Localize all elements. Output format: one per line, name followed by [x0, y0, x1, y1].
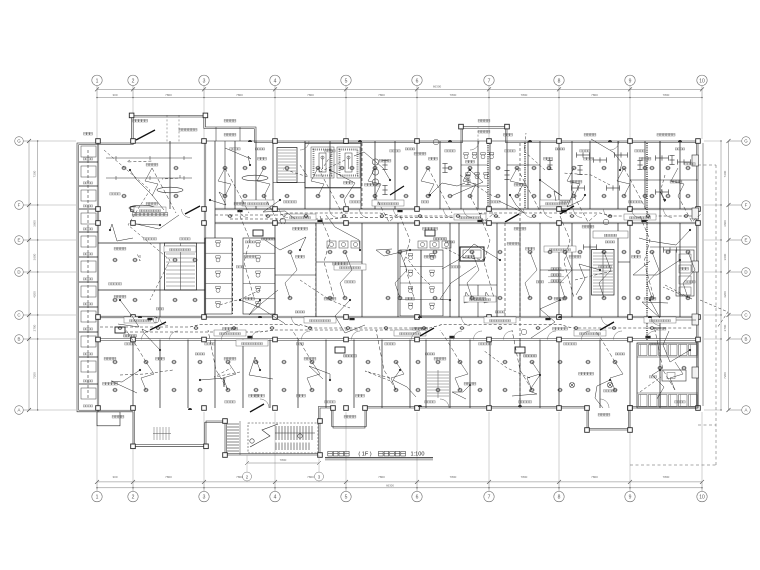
- svg-text:7800: 7800: [591, 475, 598, 479]
- top axis bubble 2: [128, 75, 138, 139]
- svg-text:7: 7: [488, 78, 491, 84]
- bold riser arrows: [136, 130, 614, 412]
- bottom axis bubble 4: [270, 412, 280, 502]
- svg-text:8: 8: [558, 78, 561, 84]
- svg-text:C: C: [744, 313, 747, 318]
- corridor label boxes: [124, 200, 676, 346]
- toilet cell strip A: [205, 238, 232, 314]
- svg-text:5: 5: [345, 78, 348, 84]
- right axis bubble C: [704, 311, 750, 320]
- operating table 2: [337, 147, 360, 178]
- svg-text:4200: 4200: [723, 291, 727, 298]
- horizontal fluorescent bars right wing: [572, 152, 691, 322]
- branch wiring drops: [126, 168, 702, 390]
- top axis bubble 3: [199, 75, 209, 139]
- svg-text:10: 10: [699, 78, 705, 84]
- bottom axis bubble 5: [341, 412, 351, 502]
- stair S6 bottom-right small: [427, 370, 449, 398]
- svg-text:2: 2: [132, 495, 135, 501]
- top axis bubble 4: [270, 75, 280, 139]
- left axis bubble E: [15, 236, 76, 245]
- svg-text:9: 9: [629, 78, 632, 84]
- svg-text:4200: 4200: [33, 291, 37, 298]
- right axis bubble G: [704, 137, 750, 146]
- left axis bubble F: [15, 201, 76, 210]
- middle band right partitions: [540, 223, 680, 317]
- right axis bubble B: [704, 335, 750, 344]
- top axis bubble 9: [625, 75, 635, 139]
- svg-text:1: 1: [96, 78, 99, 84]
- svg-text:D: D: [744, 270, 747, 275]
- top axis bubble 5: [341, 75, 351, 139]
- right wall pilasters: [692, 155, 699, 378]
- door arcs top wall: [260, 141, 619, 408]
- sterilizer circles: [372, 159, 378, 185]
- upper corridor walls: [215, 208, 698, 224]
- svg-text:7800: 7800: [236, 475, 243, 479]
- left shaft band inner wall: [96, 143, 98, 412]
- right wing cabinet: [676, 250, 694, 296]
- shaft hatched walls: [488, 143, 525, 209]
- title text: [325, 451, 433, 460]
- svg-text:7800: 7800: [307, 93, 314, 97]
- lower corridor wiring: [100, 325, 692, 333]
- hatched wall right wing: [646, 143, 648, 340]
- svg-text:B: B: [745, 337, 748, 342]
- svg-text:2: 2: [132, 78, 135, 84]
- svg-text:6: 6: [416, 495, 419, 501]
- svg-text:7800: 7800: [521, 93, 528, 97]
- svg-text:4: 4: [274, 78, 277, 84]
- bottom-right toilet block: [637, 343, 698, 408]
- stair S4 bottom-left small: [153, 427, 171, 440]
- svg-text:3600: 3600: [33, 220, 37, 227]
- toilet cell strip C: [400, 250, 421, 316]
- top axis bubble 1: [92, 75, 102, 139]
- corridor lamps: [118, 215, 689, 330]
- bottom axis bubble 10: [697, 412, 707, 502]
- svg-text:G: G: [17, 139, 21, 144]
- washroom pair: [459, 285, 497, 317]
- svg-text:C: C: [17, 313, 20, 318]
- svg-text:10: 10: [699, 495, 705, 501]
- middle band left rooms: [98, 243, 205, 317]
- svg-text:A: A: [18, 408, 21, 413]
- right boundary dashed line: [630, 165, 716, 465]
- AHU room wall: [98, 143, 206, 318]
- room name labels: [84, 119, 689, 418]
- operating room enclosure: [305, 144, 361, 188]
- svg-text:3: 3: [203, 495, 206, 501]
- svg-text:3600: 3600: [33, 253, 37, 260]
- svg-text:3600: 3600: [723, 253, 727, 260]
- svg-text:6: 6: [416, 78, 419, 84]
- circled reference tags: [153, 139, 609, 335]
- top band partitions: [170, 141, 698, 238]
- building outer envelope wall: [77, 115, 698, 455]
- AHU dashed diagonal: [104, 150, 170, 300]
- svg-text:7200: 7200: [723, 372, 727, 379]
- entrance sub dimension: [245, 455, 321, 472]
- wire tag labels: [195, 148, 685, 355]
- svg-text:G: G: [744, 139, 748, 144]
- svg-text:7800: 7800: [280, 458, 287, 462]
- svg-text:7800: 7800: [165, 475, 172, 479]
- svg-text:7800: 7800: [663, 93, 670, 97]
- svg-text:7800: 7800: [450, 475, 457, 479]
- svg-text:7200: 7200: [723, 170, 727, 177]
- svg-text:7800: 7800: [236, 93, 243, 97]
- svg-text:7200: 7200: [33, 372, 37, 379]
- bottom axis bubble 9: [625, 412, 635, 502]
- shaft band dividers and vents: [79, 146, 98, 399]
- AHU room big label: [132, 213, 168, 216]
- svg-text:7800: 7800: [663, 475, 670, 479]
- svg-text:F: F: [745, 203, 748, 208]
- ceiling lamps middle band: [112, 250, 690, 302]
- svg-text:8: 8: [558, 495, 561, 501]
- svg-text:2700: 2700: [723, 324, 727, 331]
- svg-text:7800: 7800: [591, 93, 598, 97]
- bottom axis bubble 1: [92, 412, 102, 502]
- AHU duct lines: [106, 156, 192, 180]
- svg-text:7: 7: [488, 495, 491, 501]
- svg-text:F: F: [18, 203, 21, 208]
- svg-text:300: 300: [112, 93, 117, 97]
- left broadcast protrusion: [97, 412, 120, 426]
- fan symbols in AHU room: [129, 175, 268, 211]
- entrance sub axis bubble 2: [243, 472, 252, 481]
- wire tag stack: [548, 268, 564, 283]
- svg-text:D: D: [17, 270, 20, 275]
- svg-text:66300: 66300: [433, 85, 442, 89]
- svg-text:A: A: [745, 408, 748, 413]
- stair S2 mid-right: [592, 250, 615, 296]
- svg-text:66300: 66300: [386, 484, 394, 488]
- top axis bubble 7: [484, 75, 494, 139]
- top protrusion inner line: [132, 115, 507, 143]
- top axis bubble 10: [697, 75, 707, 139]
- svg-text:E: E: [745, 238, 748, 243]
- equipment box: [460, 247, 484, 261]
- svg-text:1: 1: [96, 495, 99, 501]
- bed lines right room: [650, 247, 696, 320]
- right axis bubble A: [704, 406, 750, 415]
- left axis bubble B: [15, 335, 76, 344]
- main entrance stair S3: [227, 421, 318, 455]
- middle band partitions: [275, 223, 520, 317]
- columns at grid intersections: [96, 113, 701, 457]
- right dimension band: [720, 139, 730, 412]
- svg-text:1:100: 1:100: [411, 452, 425, 458]
- stair label box: [593, 231, 628, 238]
- distribution boxes: [115, 230, 537, 357]
- toilet cell strip B: [243, 238, 275, 314]
- right axis bubble F: [704, 201, 750, 210]
- extra tiny labels: [109, 148, 696, 403]
- svg-text:2700: 2700: [33, 324, 37, 331]
- ceiling lamps bottom band: [112, 360, 686, 392]
- door swing arcs upper corridor: [182, 209, 673, 218]
- top toilet cluster: [461, 153, 494, 186]
- svg-text:( 1F ): ( 1F ): [358, 452, 371, 458]
- svg-text:7800: 7800: [165, 93, 172, 97]
- right dashed connector: [698, 164, 716, 166]
- svg-text:E: E: [18, 238, 21, 243]
- svg-text:4: 4: [274, 495, 277, 501]
- bottom axis bubble 6: [412, 412, 422, 502]
- svg-text:7200: 7200: [33, 170, 37, 177]
- exit signs: [147, 210, 650, 338]
- svg-text:3: 3: [203, 78, 206, 84]
- left axis bubble D: [15, 268, 76, 277]
- top axis bubble 6: [412, 75, 422, 139]
- ceiling lamps top band: [121, 166, 690, 198]
- right axis bubble D: [704, 268, 750, 277]
- upper corridor wiring: [215, 213, 692, 219]
- bottom axis bubble 3: [199, 412, 209, 502]
- exhaust fan symbols bottom: [569, 382, 612, 387]
- wall lamps: [138, 140, 682, 410]
- svg-text:7800: 7800: [307, 475, 314, 479]
- svg-text:9: 9: [629, 495, 632, 501]
- bottom axis bubble 2: [128, 412, 138, 502]
- stair S1 top middle: [277, 148, 297, 183]
- solid wire zigzags: [109, 139, 691, 408]
- svg-text:B: B: [18, 337, 21, 342]
- shaft band labels: [83, 158, 93, 407]
- entrance sub axis bubble 3: [315, 472, 324, 481]
- door swing arcs lower corridor: [142, 317, 661, 340]
- lavatory counter cluster: [327, 241, 451, 248]
- left axis bubble A: [15, 406, 76, 415]
- lower corridor walls: [98, 316, 698, 340]
- svg-text:5: 5: [345, 495, 348, 501]
- right wing wall: [660, 141, 703, 408]
- svg-text:7800: 7800: [450, 93, 457, 97]
- svg-text:7800: 7800: [521, 475, 528, 479]
- svg-text:7800: 7800: [378, 475, 385, 479]
- right axis bubble E: [704, 236, 750, 245]
- stair S5 mid-left: [165, 243, 197, 290]
- bottom axis bubble 7: [484, 412, 494, 502]
- bottom dimension band: [95, 475, 704, 489]
- bottom axis bubble 8: [554, 412, 564, 502]
- left dimension band: [27, 139, 38, 412]
- fluorescent lamps top band: [382, 156, 674, 195]
- toilet cell strip D: [421, 250, 443, 316]
- bottom band partitions: [133, 340, 630, 409]
- extra dashed branches: [120, 133, 728, 392]
- top dimension band: [95, 85, 704, 99]
- operating table 1: [311, 147, 334, 178]
- room interconnect wires top band: [141, 168, 695, 390]
- svg-text:3600: 3600: [723, 220, 727, 227]
- top axis bubble 8: [554, 75, 564, 139]
- left axis bubble C: [15, 311, 76, 320]
- vertical riser wires: [88, 143, 520, 408]
- svg-text:7800: 7800: [378, 93, 385, 97]
- left axis bubble G: [15, 137, 76, 146]
- svg-text:300: 300: [112, 475, 117, 479]
